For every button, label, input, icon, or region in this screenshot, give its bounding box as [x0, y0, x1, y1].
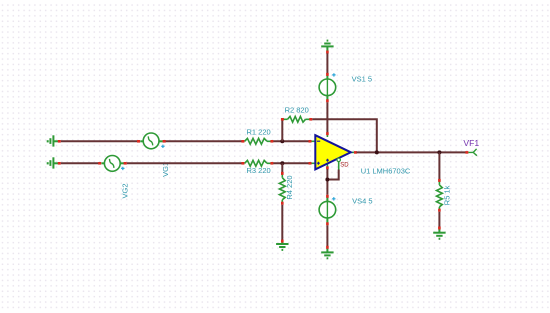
ground GND5 (below R4): [276, 243, 288, 250]
voltage generator VG2: [98, 156, 127, 172]
op-amp U1: [309, 132, 357, 169]
wire op-amp output to VF1: [357, 151, 466, 153]
svg-text:SD: SD: [340, 163, 349, 169]
wire op-amp V+ (bottom) pin to VS4: [326, 169, 328, 195]
voltage source VS4: [319, 195, 336, 226]
svg-text:VF1: VF1: [463, 138, 479, 148]
wire node B down to R4: [281, 163, 283, 172]
wire ground to VG2: [61, 162, 100, 164]
wire R2 to output node: [312, 119, 377, 152]
svg-text:VG2: VG2: [120, 183, 129, 198]
ground GND3 pin: [326, 51, 329, 54]
voltage source VS1: [319, 73, 336, 102]
ground GND1 pin: [58, 140, 61, 143]
svg-text:R5 1k: R5 1k: [443, 185, 452, 205]
pin SD: [337, 158, 340, 161]
junction node A (feedback tap on minus wire): [280, 139, 284, 143]
wire R3 to op-amp plus input: [273, 162, 310, 164]
ground GND6 (below R5): [433, 229, 445, 238]
svg-text:R1 220: R1 220: [247, 128, 271, 137]
resistor R2: [281, 116, 312, 122]
output probe VF1: [465, 149, 477, 156]
ground GND3 (top, above VS1): [321, 41, 333, 51]
svg-text:U1 LMH6703C: U1 LMH6703C: [361, 166, 411, 175]
wire SD pin down to supply node: [327, 170, 338, 180]
wire R4 to GND5: [281, 205, 283, 241]
wire VG1 to R1: [166, 140, 242, 142]
wire feedback riser (node A up to R2): [281, 118, 283, 141]
resistor R3: [241, 160, 273, 166]
ground GND5 pin: [281, 240, 284, 243]
ground GND2 (left, plus-input row): [48, 157, 59, 168]
wire R1 to op-amp minus input: [273, 140, 310, 142]
junction node B (R4 tap on plus wire): [280, 161, 284, 165]
junction node E (R5 tap on output wire): [437, 150, 441, 154]
junction node D (feedback joins output): [375, 150, 379, 154]
ground GND1 (left, minus-input row): [48, 135, 59, 146]
svg-text:R2 820: R2 820: [285, 106, 309, 115]
svg-text:VS1 5: VS1 5: [352, 75, 372, 84]
ground GND2 pin: [58, 162, 61, 165]
resistor R4: [279, 172, 285, 205]
ground GND4 pin: [326, 246, 329, 249]
ground GND4 (below VS4): [321, 248, 333, 258]
ground GND6 pin: [438, 227, 441, 230]
svg-text:R4 220: R4 220: [285, 175, 294, 199]
svg-text:VS4 5: VS4 5: [352, 197, 372, 206]
voltage generator VG1: [137, 133, 166, 149]
resistor R5: [437, 179, 443, 212]
svg-text:R3 220: R3 220: [247, 166, 271, 175]
wire node E down to R5: [438, 152, 440, 179]
wire VS4 to GND4: [326, 225, 328, 246]
wire VS1 to op-amp V- (top) pin: [326, 102, 328, 133]
wire R5 to GND6: [438, 212, 440, 228]
wire ground to VG1: [61, 140, 139, 142]
wire GND3 to VS1: [326, 53, 328, 74]
wire VG2 to R3: [127, 162, 242, 164]
junction node C (SD joins supply wire): [325, 178, 329, 182]
resistor R1: [241, 138, 273, 144]
